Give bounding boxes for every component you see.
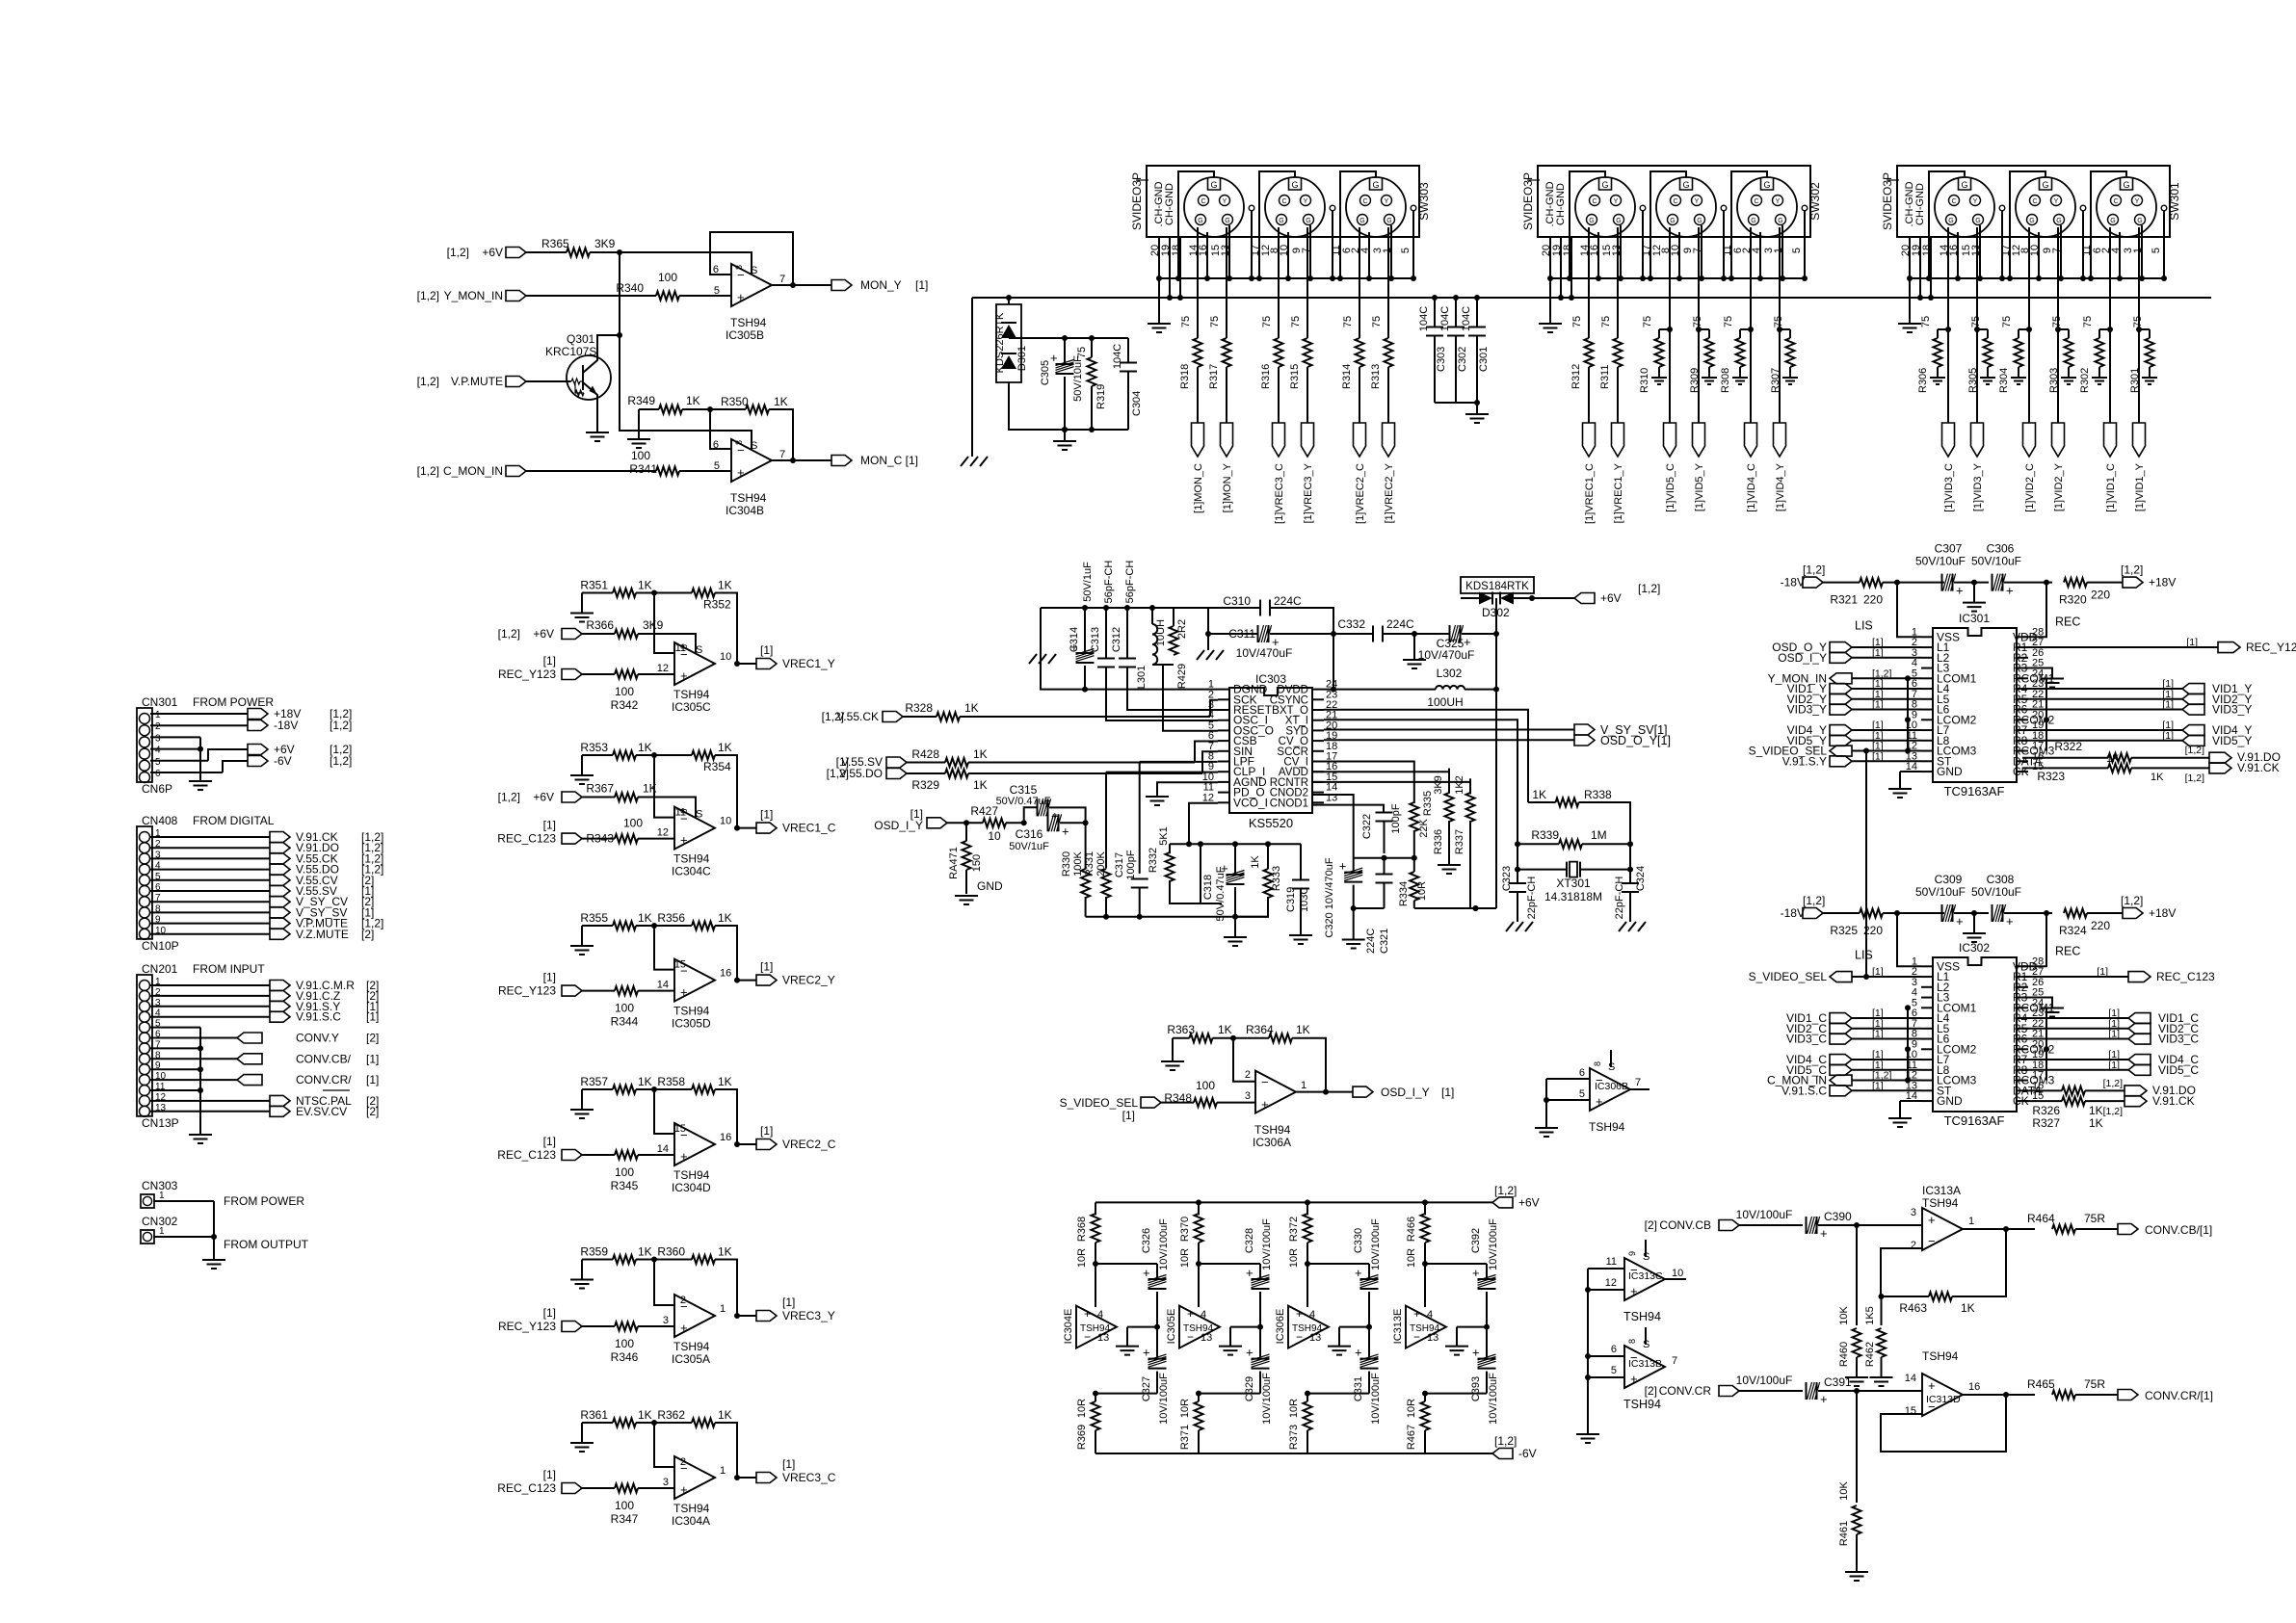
- ground R304: [2011, 378, 2026, 384]
- svg-text:G: G: [1601, 180, 1608, 190]
- wire+port CONV.CB/: [150, 1058, 237, 1060]
- svg-text:75: 75: [1076, 347, 1088, 358]
- svg-text:50V/10uF: 50V/10uF: [1915, 555, 1966, 568]
- svg-text:IC313B: IC313B: [1628, 1358, 1662, 1370]
- svg-text:14.31818M: 14.31818M: [1544, 890, 1602, 903]
- node R357/R358 junction: [651, 1086, 657, 1092]
- svg-text:1K: 1K: [638, 1245, 652, 1259]
- svg-text:C331: C331: [1353, 1376, 1364, 1401]
- IC303 pin 11 PD_O: [1218, 792, 1229, 794]
- svg-text:R337: R337: [1454, 829, 1465, 854]
- IC301 pin 5 LCOM1: [1921, 677, 1933, 679]
- svg-text:75: 75: [1571, 316, 1583, 327]
- signal wire [1]VID4_C: [1750, 227, 1752, 329]
- svg-text:[2]: [2]: [1645, 1218, 1657, 1232]
- svg-text:C392: C392: [1470, 1228, 1482, 1253]
- IC302 pin 15 CK: [2017, 1100, 2028, 1102]
- svg-text:C321: C321: [1379, 929, 1390, 954]
- signal wire [1]VREC1_C: [1588, 227, 1590, 329]
- resistor R370 10R: [1196, 1199, 1201, 1205]
- port VID3_C (IC302 L8): [1830, 1034, 1852, 1044]
- svg-text:[1,2]: [1,2]: [498, 791, 520, 804]
- port C_MON_IN (IC302 L12): [1830, 1075, 1852, 1086]
- svg-text:1: 1: [720, 1465, 726, 1477]
- svg-text:TSH94: TSH94: [730, 316, 767, 329]
- svg-text:R346: R346: [611, 1350, 639, 1364]
- svg-text:7: 7: [1672, 1355, 1677, 1367]
- svg-text:V.55.CK: V.55.CK: [836, 710, 879, 723]
- svg-text:V.91.S.Y: V.91.S.Y: [1782, 754, 1827, 768]
- svg-text:+: +: [1928, 1378, 1936, 1393]
- svg-text:[1]: [1]: [2162, 699, 2174, 711]
- op-amp IC313E (power pins): [1406, 1306, 1446, 1348]
- wire IC313A inverting input: [1881, 1248, 1922, 1296]
- svg-text:VREC3_Y: VREC3_Y: [782, 1309, 835, 1322]
- jack shield wires SW302 jack1: [1597, 232, 1599, 278]
- capacitor C326 10V/100uF: [1095, 1264, 1157, 1277]
- connector group SW301 outline: [1897, 166, 2170, 237]
- port REC_C123 (IC302 R27): [2022, 976, 2128, 978]
- svg-text:10R: 10R: [1179, 1248, 1191, 1268]
- resistor R333 1K: [1265, 841, 1271, 847]
- capacitor C319 103C: [1300, 844, 1302, 935]
- wire+port V.91.C.Z: [150, 995, 270, 997]
- node VDD feed (IC301): [2044, 580, 2049, 586]
- jack shield wires SW301 jack2: [2038, 232, 2040, 278]
- svg-text:C390: C390: [1824, 1210, 1852, 1223]
- port VID4_C (IC302 R19): [2022, 1059, 2128, 1060]
- op-amp IC305B: [731, 264, 772, 306]
- IC301 pin 27 R1: [2017, 646, 2028, 648]
- svg-text:C: C: [1951, 198, 1956, 205]
- signal wire [1]VREC1_Y: [1617, 227, 1619, 329]
- svg-text:SVIDEO3P: SVIDEO3P: [1521, 172, 1535, 230]
- svg-text:[1]: [1]: [1872, 699, 1884, 711]
- port VID1_Y (IC301 R23): [2022, 688, 2182, 690]
- ground R3 (IC302): [2022, 998, 2052, 1008]
- svideo jack at x=2207: [2097, 177, 2156, 237]
- resistor R332 5K1: [1169, 844, 1171, 853]
- node VDD feed (IC302): [2044, 910, 2049, 916]
- svg-text:V.91.CK: V.91.CK: [2237, 761, 2280, 774]
- svg-text:2: 2: [1911, 1240, 1916, 1251]
- svg-text:G: G: [1670, 218, 1675, 224]
- IC303 pin 4 OSC_I: [1218, 720, 1229, 721]
- svg-text:+18V: +18V: [2149, 576, 2176, 589]
- IC303 pin 23 CSYNC: [1312, 698, 1324, 700]
- op-amp IC305D: [674, 959, 715, 1002]
- svg-text:75: 75: [1371, 316, 1383, 327]
- svg-text:C322: C322: [1361, 814, 1373, 839]
- svg-text:C326: C326: [1141, 1228, 1152, 1253]
- svg-text:IC313A: IC313A: [1922, 1184, 1961, 1197]
- port VREC3_C: [756, 1473, 777, 1483]
- node R353/R354 junction: [651, 752, 657, 758]
- svg-text:100: 100: [623, 817, 643, 830]
- ground power row (IC302): [1973, 913, 1975, 933]
- svg-text:10V/100uF: 10V/100uF: [1370, 1218, 1382, 1270]
- svg-text:1K: 1K: [1532, 788, 1546, 801]
- svg-text:TSH94: TSH94: [1922, 1349, 1959, 1363]
- svg-text:12: 12: [1202, 792, 1214, 803]
- svg-text:+18V: +18V: [2149, 906, 2176, 920]
- wire IC305A output to port: [737, 1315, 756, 1317]
- svg-text:R344: R344: [611, 1015, 639, 1029]
- svg-text:G: G: [2123, 180, 2129, 190]
- node C391/R461: [1854, 1388, 1860, 1394]
- svg-text:GND: GND: [1937, 1094, 1963, 1108]
- IC301 pin 2 L1: [1921, 646, 1933, 648]
- svg-text:S: S: [751, 440, 757, 452]
- IC303 pin 10 AGND: [1218, 781, 1229, 783]
- IC303 pin 3 RESETB: [1218, 709, 1229, 711]
- IC301 pin 4 L3: [1921, 668, 1933, 669]
- port VID4_Y (IC301 L10): [1830, 725, 1852, 736]
- svg-text:3K9: 3K9: [594, 237, 616, 250]
- svg-text:IC305D: IC305D: [672, 1017, 711, 1031]
- chassis ground top rail: [1040, 608, 1042, 654]
- port V.91.DO (IC302): [2124, 1086, 2147, 1096]
- ground R336: [1438, 865, 1461, 874]
- svg-text:1K: 1K: [643, 782, 657, 796]
- ground RA471: [955, 896, 978, 904]
- ground R310: [1651, 378, 1667, 384]
- svg-text:R358: R358: [657, 1075, 685, 1088]
- svg-text:SVIDEO3P: SVIDEO3P: [1130, 172, 1144, 230]
- port [1]VID3_Y: [1971, 423, 1984, 457]
- capacitor C321 224C: [1384, 858, 1386, 908]
- svg-text:[1]: [1]: [1872, 1080, 1884, 1091]
- wire+port EV.SV.CV: [150, 1111, 270, 1113]
- wire+port V.55.CV: [150, 879, 270, 881]
- resistor R461 10K: [1856, 1391, 1858, 1503]
- IC303 pin 6 CSB: [1218, 740, 1229, 742]
- wire VSS feed (IC302): [1897, 913, 1921, 966]
- svg-text:50V/10uF: 50V/10uF: [1971, 555, 2021, 568]
- resistor RA471 150: [965, 823, 967, 841]
- svg-text:+: +: [2006, 584, 2014, 598]
- svg-text:[1]MON_Y: [1]MON_Y: [1222, 462, 1233, 512]
- node IC304D output: [734, 1141, 740, 1147]
- svg-text:G: G: [1210, 180, 1217, 190]
- svg-text:+6V: +6V: [533, 791, 554, 804]
- port OSD_O_Y (IC301 L2): [1830, 642, 1852, 653]
- signal wire [1]VREC2_Y: [1387, 227, 1389, 329]
- svg-text:C308: C308: [1987, 873, 2015, 886]
- svg-text:+: +: [1084, 1307, 1091, 1321]
- op-amp IC306B: [1590, 1068, 1630, 1111]
- +6V rail (bottom): [1095, 1201, 1492, 1203]
- port MON_Y: [831, 280, 852, 291]
- svg-text:75: 75: [1723, 316, 1734, 327]
- svg-text:IC304E: IC304E: [1063, 1309, 1074, 1345]
- svg-text:1: 1: [720, 1303, 726, 1315]
- IC302 pin 19 R7: [2017, 1059, 2028, 1060]
- svg-text:+: +: [1355, 1346, 1362, 1360]
- svg-text:R341: R341: [629, 462, 657, 476]
- svg-text:[1,2]: [1,2]: [2185, 745, 2205, 756]
- svg-text:1K2: 1K2: [1454, 775, 1465, 795]
- IC302 pin 3 L2: [1921, 986, 1933, 988]
- op-amp IC313C: [1624, 1258, 1665, 1300]
- wire to port [1]VID1_C: [2109, 329, 2111, 423]
- svg-text:+: +: [680, 985, 688, 1000]
- svg-text:75: 75: [1970, 316, 1982, 327]
- capacitor C392 10V/100uF: [1425, 1264, 1487, 1277]
- port VREC2_Y: [756, 975, 777, 985]
- ground IC306B: [1535, 1128, 1558, 1137]
- node IC304C output: [734, 825, 740, 831]
- svg-text:1K: 1K: [718, 1408, 732, 1422]
- capacitor C312 56pF-CH: [1124, 605, 1130, 611]
- port [1]VID2_C: [2023, 423, 2036, 457]
- svg-text:+: +: [1630, 1372, 1638, 1386]
- svg-text:50V/1uF: 50V/1uF: [1082, 562, 1094, 602]
- svg-text:V.P.MUTE: V.P.MUTE: [451, 375, 503, 388]
- resistor R466 10R: [1422, 1199, 1428, 1205]
- svg-text:10V/100uF: 10V/100uF: [1370, 1373, 1382, 1425]
- svg-text:1K5: 1K5: [1864, 1306, 1876, 1325]
- svg-text:16: 16: [720, 1132, 731, 1143]
- resistor R337 1K2: [1469, 778, 1471, 794]
- port [1]VID4_Y: [1774, 423, 1786, 457]
- svg-text:VID3_Y: VID3_Y: [2212, 703, 2252, 717]
- wire+port V.P.MUTE: [150, 923, 270, 925]
- svg-text:4: 4: [1427, 1309, 1433, 1321]
- svg-text:R321: R321: [1830, 593, 1858, 607]
- node IC305A output: [734, 1313, 740, 1319]
- IC303 pin 14 CNOD2: [1312, 792, 1324, 794]
- svg-text:REC_Y123: REC_Y123: [2246, 641, 2296, 654]
- IC302 pin 20 RCOM2: [2017, 1048, 2028, 1050]
- svg-text:1K: 1K: [718, 741, 732, 754]
- svg-text:R427: R427: [970, 804, 998, 818]
- IC303 pin 18 SCCR: [1312, 750, 1324, 752]
- svg-text:IC301: IC301: [1959, 612, 1990, 625]
- svg-text:G: G: [2110, 218, 2115, 224]
- svg-text:R325: R325: [1830, 924, 1858, 937]
- svg-text:16: 16: [720, 968, 731, 980]
- svg-text:C320 10V/470uF: C320 10V/470uF: [1324, 857, 1335, 937]
- diode D302 KDS184RTK: [1461, 577, 1534, 593]
- svg-text:[1,2]: [1,2]: [1638, 582, 1660, 595]
- svg-text:R359: R359: [580, 1245, 608, 1259]
- ground symbol SW301: [1898, 324, 1921, 332]
- svg-text:+: +: [1246, 1346, 1254, 1360]
- svg-text:-18V: -18V: [1781, 906, 1805, 920]
- IC302 pin 8 L6: [1921, 1038, 1933, 1040]
- IC302 pin 27 R1: [2017, 976, 2028, 978]
- svg-text:Q301: Q301: [567, 332, 595, 346]
- IC301 pin 7 L5: [1921, 698, 1933, 700]
- svg-text:CH-GND: CH-GND: [1555, 183, 1567, 225]
- svg-text:3: 3: [663, 1477, 669, 1488]
- port +6V (D302): [1574, 593, 1595, 604]
- IC301 pin 23 R4: [2017, 688, 2028, 690]
- port [1]VID3_C: [1942, 423, 1955, 457]
- svg-text:G: G: [1386, 218, 1391, 224]
- node VSS feed (IC301): [1894, 580, 1900, 586]
- svg-text:+: +: [1956, 914, 1964, 929]
- svg-text:G: G: [1961, 180, 1967, 190]
- node R372 junction: [1305, 1261, 1310, 1267]
- svg-text:CN13P: CN13P: [142, 1116, 179, 1130]
- port VID4_C (IC302 L10): [1830, 1055, 1852, 1065]
- svg-text:C303: C303: [1436, 347, 1447, 372]
- wire IC306A output: [1296, 1091, 1353, 1093]
- svg-text:IC304B: IC304B: [726, 504, 764, 517]
- svg-text:G: G: [2042, 180, 2048, 190]
- wire pin19 CV_O to OSD_O_Y port: [1324, 739, 1574, 741]
- port S_VIDEO_SEL (IC301 L12): [1830, 746, 1852, 756]
- svg-text:R351: R351: [580, 579, 608, 592]
- svg-text:Y: Y: [1695, 198, 1700, 205]
- svg-text:Y: Y: [1614, 198, 1619, 205]
- svg-text:Y: Y: [1776, 198, 1781, 205]
- svg-text:1: 1: [1968, 1216, 1974, 1227]
- svg-text:VREC2_Y: VREC2_Y: [782, 974, 835, 987]
- capacitor C324 22pF-CH: [1629, 870, 1631, 883]
- resistor R309 75 (shunt): [1696, 327, 1702, 332]
- svg-text:+: +: [1261, 1097, 1269, 1112]
- capacitor C305 50V/10uF: [1064, 338, 1066, 362]
- node R369 junction: [1093, 1391, 1098, 1397]
- IC302 pin 13 ST: [1921, 1089, 1933, 1091]
- svg-text:R320: R320: [2059, 593, 2087, 607]
- capacitor C320 10V/470uF: [1353, 858, 1355, 871]
- port REC_Y123 (IC301 R27): [2022, 646, 2218, 648]
- svg-text:100: 100: [658, 271, 677, 284]
- svg-text:[1]VREC3_C: [1]VREC3_C: [1274, 463, 1285, 524]
- resistor R342 100: [615, 670, 638, 679]
- signal wire [1]VID2_C: [2028, 227, 2030, 329]
- wire RCOM tie (IC302): [2045, 1008, 2047, 1080]
- svg-text:+6V: +6V: [482, 246, 503, 259]
- svg-text:[1]VREC1_Y: [1]VREC1_Y: [1613, 462, 1624, 523]
- IC302 pin 1 VSS: [1921, 965, 1933, 967]
- op-amp IC304D: [674, 1123, 715, 1165]
- port [1]VID5_C: [1664, 423, 1676, 457]
- svg-text:TSH94: TSH94: [673, 1005, 710, 1018]
- wire +6V node down to Q301 collector and R349 row: [620, 252, 752, 450]
- svg-text:1K: 1K: [1296, 1023, 1310, 1036]
- svg-text:CN10P: CN10P: [142, 939, 179, 953]
- svg-text:+: +: [1062, 824, 1069, 838]
- svg-text:C314: C314: [1069, 627, 1080, 652]
- svg-text:50V/10uF: 50V/10uF: [1971, 885, 2021, 899]
- IC301 pin 11 L8: [1921, 740, 1933, 742]
- svg-text:[1,2]: [1,2]: [2103, 1106, 2124, 1117]
- svg-text:CONV.CR: CONV.CR: [1659, 1384, 1712, 1398]
- port VID3_Y (IC301 L8): [1830, 704, 1852, 715]
- svg-text:3: 3: [1245, 1090, 1251, 1102]
- svg-text:14: 14: [1905, 1373, 1916, 1384]
- port OSD_O_Y (output): [1574, 735, 1595, 746]
- port V.91.S.Y (IC301 L13): [1830, 756, 1852, 767]
- ground R306: [1930, 378, 1945, 384]
- svg-text:10V/470uF: 10V/470uF: [1418, 648, 1475, 662]
- svg-text:50V/0.47uF: 50V/0.47uF: [1215, 866, 1227, 921]
- IC302 pin 11 L8: [1921, 1069, 1933, 1071]
- svg-text:R317: R317: [1208, 364, 1220, 389]
- svg-text:103C: 103C: [1299, 887, 1310, 912]
- svg-text:200K: 200K: [1095, 851, 1107, 876]
- svg-text:R323: R323: [2037, 770, 2065, 783]
- port +18V (IC301): [2123, 577, 2143, 588]
- port VID2_Y (IC301 R22): [2022, 698, 2182, 700]
- svg-text:14: 14: [657, 980, 669, 991]
- svg-text:IC306E: IC306E: [1275, 1309, 1286, 1345]
- wire IC304A inverting input: [654, 1423, 674, 1467]
- svg-text:R310: R310: [1639, 368, 1650, 393]
- IC301 pin 20 RCOM2: [2017, 719, 2028, 720]
- op-amp IC305E (power pins): [1179, 1306, 1220, 1348]
- svg-text:[1,2]: [1,2]: [417, 464, 439, 478]
- svg-text:C: C: [1592, 198, 1597, 205]
- svg-text:10V/100uF: 10V/100uF: [1261, 1218, 1273, 1270]
- signal wire [1]VREC2_C: [1359, 227, 1360, 329]
- svg-text:C316: C316: [1016, 827, 1043, 841]
- wire IC304D output to port: [737, 1143, 756, 1145]
- svg-text:TSH94: TSH94: [673, 852, 710, 866]
- node R363/R364: [1230, 1035, 1236, 1041]
- svideo jack at x=2123: [2016, 177, 2075, 237]
- svg-text:REC_C123: REC_C123: [2156, 970, 2215, 983]
- svg-text:1K: 1K: [718, 579, 732, 592]
- svg-text:Y: Y: [2135, 198, 2140, 205]
- svg-text:8: 8: [734, 440, 744, 445]
- svg-text:[1,2]: [1,2]: [1803, 894, 1825, 907]
- port [1]VREC1_Y: [1612, 423, 1624, 457]
- svideo jack at x=1344: [1265, 177, 1325, 237]
- svg-text:10V/470uF: 10V/470uF: [1236, 646, 1293, 660]
- svg-text:OSD_I_Y: OSD_I_Y: [1778, 651, 1827, 665]
- svg-text:75: 75: [2082, 316, 2094, 327]
- svg-text:1K: 1K: [718, 1245, 732, 1259]
- wire LCOM tie (IC301): [1907, 678, 1909, 750]
- svideo jack at x=1260: [1184, 177, 1244, 237]
- resistor R371 10R: [1195, 1401, 1203, 1430]
- svg-text:5: 5: [1400, 248, 1412, 253]
- node RA471 junction: [963, 820, 969, 825]
- ground R301: [2142, 378, 2157, 384]
- svg-text:+: +: [737, 290, 745, 304]
- port [1]VID1_C: [2104, 423, 2117, 457]
- svg-text:+6V: +6V: [1518, 1195, 1540, 1209]
- wire IC304A output to port: [737, 1477, 756, 1479]
- svg-text:C: C: [1673, 198, 1677, 205]
- svideo jack at x=2039: [1935, 177, 1994, 237]
- port VID5_Y (IC301 R18): [2022, 740, 2182, 742]
- svg-text:R356: R356: [657, 911, 685, 925]
- svg-text:C332: C332: [1337, 617, 1365, 631]
- IC IC302 TC9163AF body: [1933, 957, 2017, 1112]
- ground Q301 emitter: [596, 400, 598, 432]
- svg-text:Y: Y: [1223, 198, 1227, 205]
- wire R331 to pin9 CLP_I: [1106, 772, 1218, 773]
- wire C317 to pin8 LPF: [1140, 761, 1218, 763]
- svg-text:C_MON_IN: C_MON_IN: [443, 464, 503, 478]
- IC303 pin 24 DVDD: [1312, 689, 1324, 691]
- svg-text:CONV.CR/[1]: CONV.CR/[1]: [2145, 1389, 2213, 1402]
- svg-text:1K: 1K: [774, 395, 788, 408]
- svg-text:[1,2]: [1,2]: [2121, 563, 2143, 577]
- svg-text:1K: 1K: [638, 579, 652, 592]
- svg-text:75: 75: [1261, 316, 1273, 327]
- node mid gnd (IC301): [1971, 580, 1977, 586]
- svg-text:CONV.CB/[1]: CONV.CB/[1]: [2145, 1223, 2212, 1237]
- svg-text:75: 75: [2001, 316, 2013, 327]
